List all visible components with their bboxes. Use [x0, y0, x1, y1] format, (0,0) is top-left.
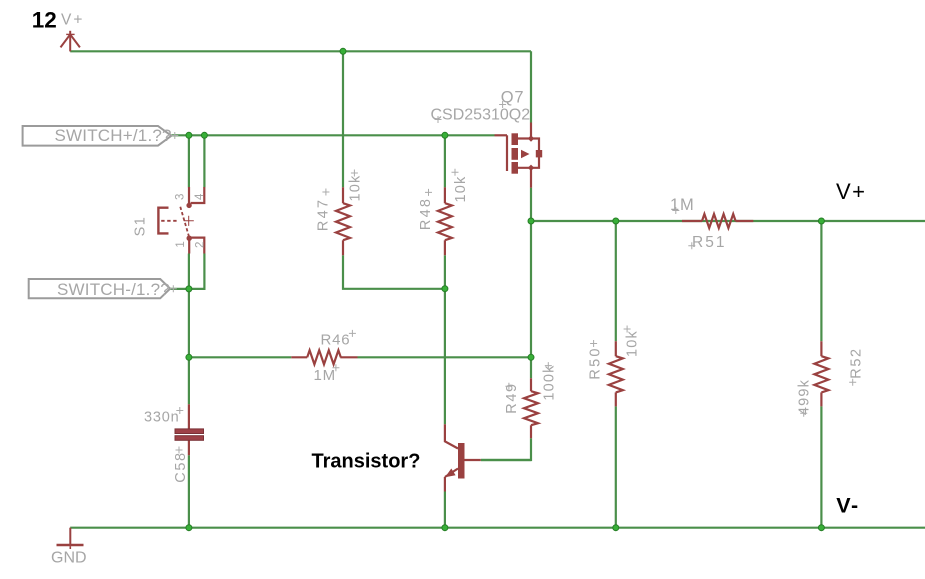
junction V+ rail / R52	[818, 218, 824, 224]
svg-text:R48: R48	[418, 197, 434, 230]
svg-text:S1: S1	[132, 216, 148, 237]
svg-text:V+: V+	[836, 179, 867, 204]
junction ground rail / emitter	[442, 525, 448, 531]
resistor R47	[336, 187, 350, 255]
svg-text:CSD25310Q2: CSD25310Q2	[431, 107, 531, 124]
wire R47 bottom to R48 bottom	[343, 255, 445, 288]
wire R48 bottom to transistor collector	[444, 289, 446, 425]
resistor R49	[524, 378, 538, 438]
wire drop to Q7 source	[530, 51, 532, 122]
junction ground rail / C58	[186, 525, 192, 531]
junction R46 left node	[186, 354, 192, 360]
svg-text:Transistor?: Transistor?	[312, 451, 421, 473]
svg-text:C58: C58	[173, 451, 189, 482]
wire branch to R47	[342, 51, 344, 187]
junction SWITCH- node	[186, 286, 192, 292]
svg-text:3: 3	[175, 194, 187, 200]
wire SWITCH+ net	[171, 134, 494, 136]
svg-text:R46: R46	[321, 332, 351, 349]
wire Q7 drain down	[530, 188, 532, 221]
wire SWITCH- node down	[188, 289, 190, 404]
junction SWITCH+ / R48 / gate	[442, 132, 448, 138]
svg-text:2: 2	[195, 242, 207, 248]
wire R50 bottom	[615, 406, 617, 527]
resistor R50	[609, 341, 623, 406]
svg-text:10k: 10k	[625, 330, 641, 357]
wire R46 right	[358, 356, 532, 358]
wire node to R46/R49	[530, 221, 532, 357]
svg-text:499k: 499k	[797, 379, 813, 415]
ground GND	[57, 528, 84, 549]
wire bottom rail V-	[70, 527, 925, 529]
svg-text:12: 12	[32, 7, 57, 32]
wire R49 bottom to transistor base	[481, 438, 531, 460]
MOSFET Q7	[495, 123, 543, 188]
svg-text:10k: 10k	[453, 176, 469, 203]
wire C58 bottom to ground rail	[188, 455, 190, 527]
junction SWITCH+ / pin3	[186, 132, 192, 138]
svg-text:R51: R51	[692, 234, 726, 251]
svg-text:SWITCH+/1.??: SWITCH+/1.??	[55, 126, 172, 145]
supply symbol V+ 12	[61, 31, 80, 52]
svg-text:330n: 330n	[144, 410, 179, 426]
junction top rail / R47	[340, 48, 346, 54]
resistor R51	[682, 214, 753, 228]
junction SWITCH+ / pin4	[201, 132, 207, 138]
svg-text:1M: 1M	[670, 196, 695, 214]
resistor R46	[291, 350, 357, 364]
svg-text:V+: V+	[61, 11, 84, 28]
svg-text:R49: R49	[504, 382, 520, 413]
wire R46 left	[189, 356, 291, 358]
capacitor C58	[175, 404, 204, 455]
transistor (BJT)	[445, 424, 481, 491]
svg-text:1M: 1M	[314, 367, 336, 384]
svg-text:100k: 100k	[542, 364, 558, 400]
svg-text:Q7: Q7	[501, 88, 525, 106]
svg-text:SWITCH-/1.??: SWITCH-/1.??	[57, 280, 170, 299]
junction R46 / R49 node	[528, 354, 534, 360]
switch S1	[158, 187, 204, 254]
junction R47/R48 bottom	[442, 286, 448, 292]
wire R49 top	[530, 357, 532, 378]
wire SWITCH- stub	[170, 288, 189, 290]
wire transistor emitter down	[444, 492, 446, 528]
resistor R52	[814, 341, 828, 406]
net flag SWITCH+	[23, 126, 172, 146]
resistor R48	[438, 187, 452, 255]
svg-text:R50: R50	[588, 346, 604, 379]
junction Q7 drain / V+ rail	[528, 218, 534, 224]
wire to switch pin3	[188, 135, 190, 187]
junction ground rail / R50	[613, 525, 619, 531]
wire to R48 top	[444, 135, 446, 187]
wire R48 bottom	[444, 255, 446, 288]
svg-text:4: 4	[194, 193, 206, 200]
svg-text:1: 1	[175, 241, 187, 247]
svg-text:R47: R47	[315, 198, 331, 231]
svg-text:10k: 10k	[348, 175, 364, 202]
svg-text:V-: V-	[836, 494, 859, 518]
wire switch pin1 down	[188, 254, 190, 289]
wire V+ mid rail	[531, 220, 925, 222]
wire R52 bottom	[820, 406, 822, 527]
svg-text:R52: R52	[849, 347, 865, 378]
wire to switch pin4	[203, 135, 205, 187]
wire switch pin2 down to SWITCH- node	[189, 254, 205, 289]
svg-text:GND: GND	[51, 550, 87, 567]
wire transistor base	[481, 459, 531, 461]
wire R52 top	[820, 221, 822, 341]
junction V+ rail / R50	[613, 218, 619, 224]
origin cross marks	[170, 101, 856, 454]
wire top rail V+	[70, 50, 531, 52]
wire R50 top	[615, 221, 617, 341]
junction ground rail / R52	[818, 525, 824, 531]
net flag SWITCH-	[29, 279, 171, 298]
